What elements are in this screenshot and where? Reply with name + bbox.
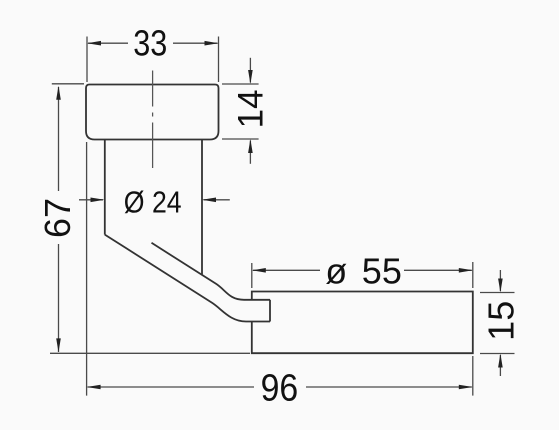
dimension diameter 24 bbox=[79, 186, 230, 220]
cap outline bbox=[86, 85, 219, 140]
svg-text:14: 14 bbox=[231, 89, 270, 128]
svg-text:55: 55 bbox=[362, 251, 402, 292]
svg-text:33: 33 bbox=[133, 24, 167, 64]
arm outer edge bbox=[105, 235, 270, 322]
dimension 96 bbox=[87, 142, 473, 409]
dimension diameter 55 bbox=[252, 251, 473, 292]
dimension 67 bbox=[37, 84, 250, 354]
svg-text:ø: ø bbox=[325, 251, 347, 292]
neck left edge bbox=[104, 140, 106, 235]
svg-text:Ø 24: Ø 24 bbox=[124, 186, 182, 220]
dimension 15 bbox=[480, 270, 522, 376]
arm inner edge bbox=[152, 243, 271, 300]
dimension 14 bbox=[222, 58, 270, 164]
arm stub end edge bbox=[269, 300, 271, 322]
dimension 33 bbox=[87, 24, 219, 82]
svg-text:15: 15 bbox=[481, 301, 522, 341]
base plate outline bbox=[252, 292, 473, 354]
svg-text:67: 67 bbox=[37, 198, 78, 238]
centerline bbox=[152, 71, 154, 169]
svg-text:96: 96 bbox=[261, 366, 299, 409]
neck right edge bbox=[201, 140, 203, 275]
